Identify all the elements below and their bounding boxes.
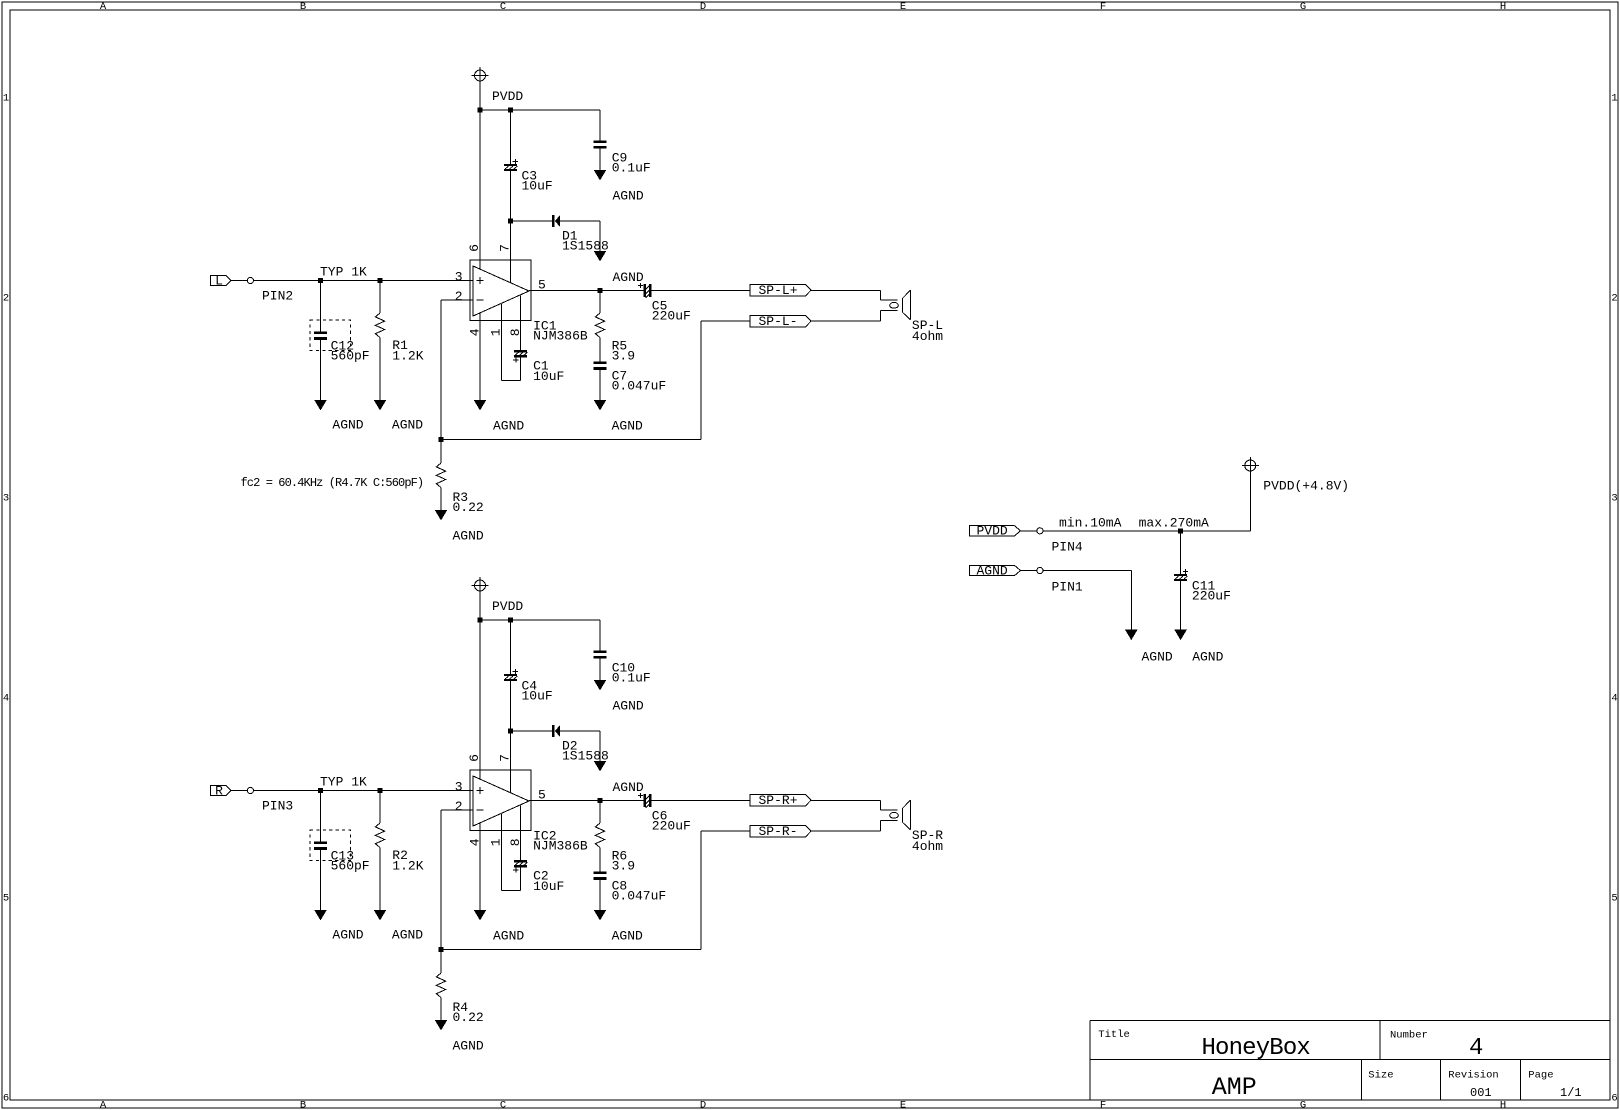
- label C11 value: [1192, 578, 1231, 603]
- svg-text:2: 2: [3, 293, 9, 305]
- svg-text:5: 5: [1611, 893, 1617, 905]
- label R4 value: [453, 1000, 484, 1025]
- svg-text:Size: Size: [1368, 1069, 1393, 1081]
- svg-text:1/1: 1/1: [1560, 1086, 1582, 1100]
- junction feedback / R3: [439, 437, 444, 442]
- svg-text:E: E: [900, 1, 906, 13]
- resistor R1 1.2K: [374, 281, 386, 411]
- capacitor C11 220uF: [1174, 531, 1188, 640]
- label R5 value: [612, 338, 635, 363]
- power symbol PVDD (right channel): [472, 577, 489, 620]
- label R2 value: [392, 848, 423, 874]
- svg-text:G: G: [1300, 1, 1306, 13]
- speaker SP-R 4ohm: [890, 800, 911, 830]
- capacitor C5 220uF (output): [638, 283, 651, 298]
- svg-text:1: 1: [489, 838, 504, 846]
- svg-text:1S1588: 1S1588: [562, 239, 609, 254]
- svg-text:NJM386B: NJM386B: [533, 328, 588, 343]
- label D2 value: [562, 738, 609, 763]
- connector SP-L+: [750, 283, 811, 298]
- svg-text:SP-L+: SP-L+: [758, 283, 797, 298]
- svg-text:5: 5: [3, 893, 9, 905]
- label C13 value: [331, 848, 370, 873]
- capacitor C3 10uF: [504, 110, 518, 221]
- svg-text:7: 7: [497, 754, 512, 762]
- capacitor C10 0.1uF: [594, 620, 607, 691]
- svg-text:10uF: 10uF: [522, 689, 553, 704]
- resistor R2 1.2K: [374, 791, 386, 921]
- svg-text:AGND: AGND: [453, 529, 484, 544]
- svg-text:6: 6: [3, 1093, 9, 1105]
- svg-text:AGND: AGND: [612, 419, 643, 434]
- label SP-R 4ohm: [912, 828, 943, 854]
- svg-text:1.2K: 1.2K: [392, 859, 423, 874]
- pin 4 wire to ground: [474, 313, 486, 411]
- svg-text:min.10mA: min.10mA: [1059, 516, 1122, 531]
- wire cap to SP+ tag: [651, 290, 750, 292]
- resistor R4 0.22: [435, 950, 447, 1031]
- svg-text:4: 4: [1611, 693, 1617, 705]
- svg-text:SP-R+: SP-R+: [758, 793, 797, 808]
- connector tag AGND: [970, 563, 1043, 578]
- power symbol PVDD(+4.8V): [1242, 457, 1259, 531]
- svg-text:fc2 = 60.4KHz (R4.7K C:560pF): fc2 = 60.4KHz (R4.7K C:560pF): [241, 476, 424, 490]
- svg-text:1.2K: 1.2K: [392, 349, 423, 364]
- diode D2 1S1588: [511, 725, 607, 771]
- svg-text:0.047uF: 0.047uF: [612, 378, 667, 393]
- wire input to op-amp pin 3: [254, 280, 474, 282]
- svg-text:AGND: AGND: [392, 418, 423, 433]
- svg-text:220uF: 220uF: [652, 309, 691, 324]
- wire cap to SP+ tag: [651, 800, 750, 802]
- svg-text:1S1588: 1S1588: [562, 749, 609, 764]
- wire PVDD rail: [480, 109, 600, 111]
- op-amp IC2 NJM386B: [470, 770, 531, 831]
- svg-text:AMP: AMP: [1212, 1073, 1257, 1102]
- wire SP- to speaker: [811, 310, 898, 321]
- capacitor C12 560pF (dashed optional): [310, 281, 351, 411]
- svg-text:0.1uF: 0.1uF: [612, 161, 651, 176]
- connector SP-R+: [750, 793, 811, 808]
- wire feedback pin 2: [441, 300, 750, 440]
- svg-text:3.9: 3.9: [612, 858, 635, 873]
- svg-text:560pF: 560pF: [331, 349, 370, 364]
- svg-text:4: 4: [1469, 1035, 1483, 1062]
- label C4 value: [522, 678, 553, 703]
- svg-text:Revision: Revision: [1448, 1069, 1498, 1081]
- label C7 value: [612, 369, 667, 394]
- op-amp IC1 NJM386B: [470, 260, 531, 321]
- junction output / R6: [598, 798, 603, 803]
- svg-text:4: 4: [467, 838, 482, 846]
- capacitor C1 10uF (pins 1-8): [501, 296, 527, 381]
- svg-text:560pF: 560pF: [331, 859, 370, 874]
- node input / C12 junction: [318, 278, 323, 283]
- svg-text:8: 8: [508, 838, 523, 846]
- svg-text:PVDD: PVDD: [492, 599, 523, 614]
- svg-text:AGND: AGND: [332, 418, 363, 433]
- svg-text:6: 6: [467, 754, 482, 762]
- input connector L: [211, 273, 254, 288]
- svg-text:G: G: [1300, 1100, 1306, 1110]
- svg-text:AGND: AGND: [613, 699, 644, 714]
- junction feedback / R4: [439, 947, 444, 952]
- label C3 value: [522, 168, 553, 193]
- svg-text:TYP 1K: TYP 1K: [320, 775, 367, 790]
- label R1 value: [392, 338, 423, 364]
- svg-text:B: B: [300, 1, 306, 13]
- svg-text:3: 3: [3, 493, 9, 505]
- svg-text:1: 1: [3, 93, 9, 105]
- node input / C13 junction: [318, 788, 323, 793]
- svg-text:SP-R-: SP-R-: [758, 824, 797, 839]
- svg-text:0.22: 0.22: [453, 1010, 484, 1025]
- svg-text:AGND: AGND: [1192, 650, 1223, 665]
- svg-text:7: 7: [497, 244, 512, 252]
- input connector R: [211, 783, 254, 798]
- capacitor C4 10uF: [504, 620, 518, 731]
- label C12 value: [331, 338, 370, 363]
- capacitor C6 220uF (output): [638, 793, 651, 808]
- svg-text:TYP 1K: TYP 1K: [320, 265, 367, 280]
- diode D1 1S1588: [511, 215, 607, 261]
- pin 6 wire: [479, 620, 481, 779]
- wire SP- to speaker: [811, 820, 898, 831]
- svg-text:4ohm: 4ohm: [912, 329, 943, 344]
- svg-text:2: 2: [455, 289, 463, 304]
- wire op-amp output pin 5: [529, 290, 644, 292]
- junction output / R5: [598, 288, 603, 293]
- pin 6 wire: [479, 110, 481, 269]
- svg-text:AGND: AGND: [392, 928, 423, 943]
- svg-text:AGND: AGND: [976, 563, 1007, 578]
- svg-text:0.1uF: 0.1uF: [612, 671, 651, 686]
- node input / R2 junction: [378, 788, 383, 793]
- label R3 value: [453, 490, 484, 515]
- label C6 value: [652, 808, 691, 833]
- wire feedback pin 2: [441, 810, 750, 950]
- connector SP-L-: [750, 314, 811, 329]
- svg-text:Number: Number: [1390, 1030, 1428, 1042]
- svg-text:A: A: [100, 1, 107, 13]
- svg-text:220uF: 220uF: [652, 819, 691, 834]
- svg-text:1: 1: [489, 328, 504, 336]
- svg-text:AGND: AGND: [613, 780, 644, 795]
- label C10 value: [612, 661, 651, 686]
- speaker SP-L 4ohm: [890, 290, 911, 320]
- wire input to op-amp pin 3: [254, 790, 474, 792]
- svg-text:10uF: 10uF: [533, 879, 564, 894]
- svg-text:PVDD: PVDD: [976, 524, 1007, 539]
- pin 7 wire: [510, 221, 512, 283]
- wire PVDD rail: [480, 619, 600, 621]
- label C5 value: [652, 298, 691, 323]
- svg-text:HoneyBox: HoneyBox: [1202, 1035, 1311, 1062]
- svg-text:H: H: [1500, 1100, 1506, 1110]
- svg-text:4: 4: [467, 328, 482, 336]
- svg-text:max.270mA: max.270mA: [1139, 516, 1209, 531]
- capacitor C8 0.047uF: [594, 872, 607, 921]
- svg-text:3: 3: [455, 779, 463, 794]
- svg-text:C: C: [500, 1, 506, 13]
- capacitor C2 10uF (pins 1-8): [501, 806, 527, 891]
- svg-text:R: R: [215, 783, 223, 798]
- capacitor C13 560pF (dashed optional): [310, 791, 351, 921]
- svg-text:Page: Page: [1528, 1069, 1553, 1081]
- svg-text:3: 3: [1611, 493, 1617, 505]
- svg-text:AGND: AGND: [1142, 650, 1173, 665]
- svg-text:3.9: 3.9: [612, 348, 635, 363]
- node input / R1 junction: [378, 278, 383, 283]
- connector tag PVDD: [970, 524, 1043, 539]
- pin 4 wire to ground: [474, 823, 486, 921]
- connector SP-R-: [750, 824, 811, 839]
- svg-text:PIN3: PIN3: [262, 799, 293, 814]
- svg-text:E: E: [900, 1100, 906, 1110]
- junction PVDD rail / C3 branch: [508, 108, 513, 113]
- title block frame: [1090, 1021, 1610, 1101]
- svg-text:PVDD(+4.8V): PVDD(+4.8V): [1263, 479, 1349, 494]
- svg-text:C: C: [500, 1100, 506, 1110]
- wire AGND to ground: [1043, 571, 1138, 641]
- svg-text:AGND: AGND: [613, 270, 644, 285]
- svg-text:PIN4: PIN4: [1052, 540, 1083, 555]
- pin 7 wire: [510, 731, 512, 793]
- svg-text:10uF: 10uF: [522, 179, 553, 194]
- svg-text:NJM386B: NJM386B: [533, 838, 588, 853]
- svg-text:PIN2: PIN2: [262, 289, 293, 304]
- wire SP+ to speaker: [811, 801, 898, 811]
- svg-text:1: 1: [1611, 93, 1617, 105]
- label C1 value: [533, 358, 564, 384]
- svg-text:4ohm: 4ohm: [912, 839, 943, 854]
- junction PVDD rail / pin 6: [478, 618, 483, 623]
- wire PVDD to power symbol: [1043, 530, 1250, 532]
- svg-text:AGND: AGND: [612, 929, 643, 944]
- svg-text:H: H: [1500, 1, 1506, 13]
- svg-text:AGND: AGND: [493, 419, 524, 434]
- svg-text:PVDD: PVDD: [492, 89, 523, 104]
- svg-text:0.047uF: 0.047uF: [612, 888, 667, 903]
- svg-text:F: F: [1100, 1, 1106, 13]
- resistor R3 0.22: [435, 440, 447, 521]
- svg-text:2: 2: [1611, 293, 1617, 305]
- svg-text:4: 4: [3, 693, 9, 705]
- junction C3 / D1: [508, 219, 513, 224]
- power symbol PVDD (left channel): [472, 67, 489, 110]
- svg-text:220uF: 220uF: [1192, 588, 1231, 603]
- label D1 value: [562, 228, 609, 253]
- resistor R5 3.9: [595, 291, 604, 362]
- svg-text:SP-L-: SP-L-: [758, 314, 797, 329]
- svg-text:D: D: [700, 1100, 706, 1110]
- junction PVDD rail / pin 6: [478, 108, 483, 113]
- wire op-amp output pin 5: [529, 800, 644, 802]
- junction C4 / D2: [508, 729, 513, 734]
- svg-text:AGND: AGND: [493, 929, 524, 944]
- label C8 value: [612, 879, 667, 904]
- label SP-L 4ohm: [912, 318, 943, 344]
- svg-text:A: A: [100, 1100, 107, 1110]
- svg-text:AGND: AGND: [453, 1039, 484, 1054]
- wire SP+ to speaker: [811, 291, 898, 301]
- junction PVDD / C11: [1178, 528, 1183, 533]
- capacitor C9 0.1uF: [594, 110, 607, 181]
- label IC2 NJM386B: [533, 828, 588, 853]
- label R6 value: [612, 848, 635, 873]
- svg-text:001: 001: [1470, 1086, 1492, 1100]
- svg-text:AGND: AGND: [332, 928, 363, 943]
- svg-text:2: 2: [455, 799, 463, 814]
- svg-text:AGND: AGND: [613, 189, 644, 204]
- svg-text:Title: Title: [1098, 1029, 1130, 1041]
- capacitor C7 0.047uF: [594, 362, 607, 411]
- svg-text:L: L: [215, 273, 223, 288]
- svg-text:B: B: [300, 1100, 306, 1110]
- resistor R6 3.9: [595, 801, 604, 872]
- svg-text:F: F: [1100, 1100, 1106, 1110]
- label IC1 NJM386B: [533, 318, 588, 343]
- svg-text:6: 6: [467, 244, 482, 252]
- svg-text:D: D: [700, 1, 706, 13]
- label C2 value: [533, 868, 564, 894]
- svg-text:8: 8: [508, 328, 523, 336]
- junction PVDD rail / C4 branch: [508, 618, 513, 623]
- svg-text:6: 6: [1611, 1093, 1617, 1105]
- svg-text:0.22: 0.22: [453, 500, 484, 515]
- svg-text:10uF: 10uF: [533, 369, 564, 384]
- svg-text:3: 3: [455, 269, 463, 284]
- svg-text:PIN1: PIN1: [1052, 580, 1083, 595]
- label C9 value: [612, 151, 651, 176]
